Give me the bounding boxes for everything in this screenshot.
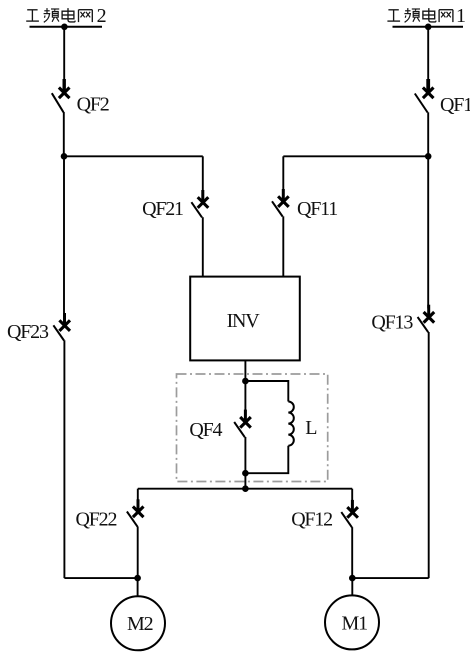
bus bar (grid 2) [30,26,103,28]
inductor L [245,381,317,473]
wire to motor M1 [351,578,353,595]
breaker QF21 [142,156,208,276]
svg-text:QF12: QF12 [291,508,332,530]
breaker QF13 [371,156,434,578]
wire QF11 branch to right junction [283,155,428,157]
inverter INV [190,277,300,361]
svg-text:2: 2 [97,5,107,27]
node on bus 2 [61,24,68,31]
svg-text:INV: INV [227,310,261,332]
wire node D to bus node [244,473,246,489]
node A (left junction) [61,153,68,160]
svg-text:L: L [305,417,317,439]
breaker QF2 [52,88,109,157]
bus bar (grid 1) [393,26,464,28]
breaker QF23 [7,156,70,578]
motor M2 [111,596,165,650]
motor bus wire [138,488,352,490]
filter enclosure (dash-dot box) [177,374,328,482]
breaker QF4 [189,381,250,473]
svg-text:QF1: QF1 [440,94,470,116]
arrow tip QF1 [426,79,430,92]
svg-text:QF11: QF11 [297,198,337,220]
svg-text:QF2: QF2 [77,93,109,115]
motor M1 [325,595,379,649]
svg-text:M1: M1 [342,613,368,635]
breaker QF12 [291,489,358,578]
svg-text:M2: M2 [127,613,153,635]
node on bus 1 [425,24,432,31]
svg-text:1: 1 [456,5,466,27]
wire bus1 to QF1 [427,27,429,80]
node M1 junction [349,575,356,582]
wire bus2 to QF2 [63,27,65,80]
wire INV bottom to node C [244,360,246,381]
node E (motor bus tap) [242,485,249,492]
node D (bottom of QF4/L) [242,470,249,477]
label 工频电网2 (grid-2 source) [26,5,106,27]
node C (top of QF4/L) [242,378,249,385]
svg-text:QF23: QF23 [7,321,49,343]
label 工频电网1 (grid-1 source) [387,5,466,27]
svg-text:QF22: QF22 [76,508,117,530]
breaker QF11 [272,156,337,276]
wire left rail to M2 node [64,577,137,579]
wire to motor M2 [137,578,139,596]
wire right rail to M1 node [352,577,428,579]
arrow tip QF2 [62,79,65,92]
wire left junction to QF21 branch [64,155,203,157]
node B (right junction) [425,153,432,160]
svg-text:QF21: QF21 [142,198,183,220]
breaker QF1 [415,88,470,157]
svg-text:QF13: QF13 [371,312,413,334]
node M2 junction [134,575,141,582]
svg-text:QF4: QF4 [189,419,222,441]
breaker QF22 [76,489,144,578]
